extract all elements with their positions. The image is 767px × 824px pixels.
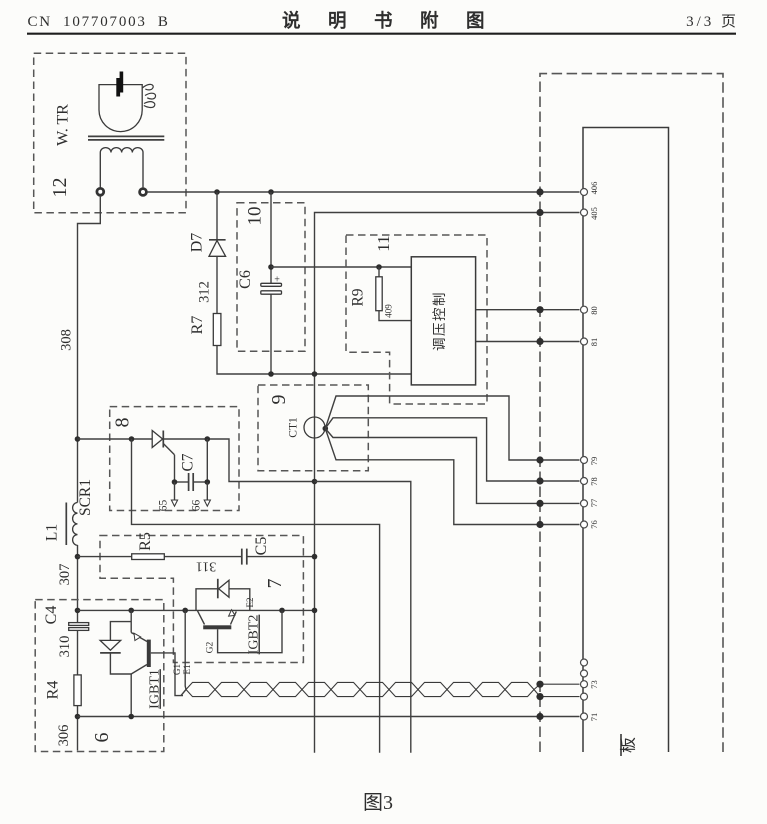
- label 66: [191, 500, 203, 512]
- svg-text:R4: R4: [45, 681, 62, 700]
- label 77: [589, 499, 599, 508]
- svg-text:W. TR: W. TR: [55, 104, 72, 146]
- wire box8 left branch down across to bottom: [132, 439, 380, 753]
- twisted pair cable: [186, 682, 580, 696]
- svg-text:405: 405: [589, 207, 599, 220]
- label C4: [43, 606, 60, 625]
- svg-text:板: 板: [620, 737, 638, 753]
- bus entry dot row 71: [536, 713, 543, 720]
- label 307: [57, 564, 73, 586]
- terminal circle 77: [581, 500, 588, 507]
- wire row y610 collector bus: [78, 609, 315, 611]
- terminal circle 76: [581, 521, 588, 528]
- svg-text:R9: R9: [350, 288, 367, 306]
- terminal circle 73a: [581, 681, 588, 688]
- svg-text:3/3 页: 3/3 页: [686, 14, 739, 30]
- svg-text:306: 306: [56, 725, 72, 747]
- capacitor C6 wire: [270, 192, 272, 374]
- svg-text:66: 66: [191, 500, 203, 512]
- bus entry dot row 76: [536, 521, 543, 528]
- svg-text:C5: C5: [253, 537, 270, 556]
- svg-text:IGBT1: IGBT1: [148, 669, 163, 709]
- svg-text:78: 78: [589, 477, 599, 486]
- junction dot node y610 on 308 line: [75, 608, 81, 614]
- svg-text:12: 12: [49, 178, 71, 198]
- label IGBT1: [148, 669, 163, 709]
- box 10: [237, 203, 305, 351]
- bus entry dot row 405: [536, 209, 543, 216]
- wire from left terminal down-left (net 308): [78, 196, 101, 503]
- diode D7: [209, 192, 226, 314]
- junction dot 307 row at CT line: [312, 554, 318, 560]
- bus entry dot row 81: [536, 338, 543, 345]
- wire row y267 C6 to control box: [271, 266, 411, 268]
- svg-text:73: 73: [589, 680, 599, 689]
- welding torch bell: [99, 85, 142, 132]
- winding lead wires: [100, 153, 143, 188]
- terminal circle 406: [581, 189, 588, 196]
- wire C4 to R4: [77, 630, 79, 675]
- terminal circle 80: [581, 306, 588, 313]
- label 71: [589, 713, 599, 722]
- resistor R7: [213, 314, 221, 346]
- svg-text:调压控制: 调压控制: [432, 291, 447, 351]
- svg-text:R7: R7: [189, 316, 206, 335]
- wire row 306 to terminal 71: [78, 716, 580, 718]
- label 12: [49, 178, 71, 198]
- CT1 fan wire w3 to terminal 77: [325, 429, 579, 504]
- box 12 welding transformer module: [34, 53, 186, 213]
- svg-text:311: 311: [196, 558, 216, 573]
- svg-text:79: 79: [589, 457, 599, 466]
- svg-text:6: 6: [91, 733, 113, 743]
- label 78: [589, 477, 599, 486]
- IGBT1 gate wire: [151, 653, 183, 696]
- wire R4 to node 306 and bottom: [77, 706, 79, 751]
- wire R7 bottom to control box (net row y374): [217, 346, 411, 375]
- box 7 stepped dashed boundary: [100, 536, 303, 663]
- bus entry dot row 78: [536, 477, 543, 484]
- svg-text:65: 65: [158, 500, 170, 512]
- label G2: [206, 641, 216, 653]
- junction dot node 306: [75, 714, 81, 720]
- resistor R5: [132, 554, 165, 560]
- resistor R9: [376, 267, 412, 321]
- svg-text:406: 406: [589, 182, 599, 195]
- header rule: [27, 33, 736, 35]
- label 65: [158, 500, 170, 512]
- label L1: [44, 524, 61, 541]
- capacitor C7 row wire: [175, 481, 208, 483]
- svg-text:L1: L1: [44, 524, 61, 541]
- CT1 fan wire w4 to terminal 76: [325, 429, 579, 525]
- capacitor C4 plates: [69, 623, 89, 631]
- label 405: [589, 207, 599, 220]
- label 10: [245, 207, 266, 226]
- junction dot y481 on CT line: [312, 479, 318, 485]
- svg-text:G1: G1: [172, 664, 182, 675]
- terminal 65 arrow: [171, 482, 177, 506]
- svg-text:9: 9: [268, 395, 290, 405]
- label SCR1: [77, 479, 94, 516]
- label W. TR: [55, 104, 72, 146]
- box 9 current transformer module: [258, 385, 368, 471]
- svg-text:SCR1: SCR1: [77, 479, 94, 516]
- terminal circle 81: [581, 338, 588, 345]
- control board dashed boundary: [540, 74, 723, 752]
- wire control box to terminal 81: [476, 341, 580, 343]
- svg-text:R5: R5: [137, 532, 154, 551]
- label R9: [350, 288, 367, 306]
- torch cable squiggles: [142, 84, 155, 107]
- caption 图3: [363, 792, 393, 814]
- svg-text:77: 77: [589, 499, 599, 508]
- label 409: [384, 304, 394, 318]
- label 板: [620, 734, 638, 756]
- voltage regulation control box U11: [411, 257, 475, 385]
- CT1 fan junction dot: [323, 426, 329, 432]
- header publication number: [28, 14, 170, 30]
- label 306: [56, 725, 72, 747]
- wire 307 row through R5 C5: [78, 556, 315, 558]
- junction dot C7 top tap: [205, 436, 211, 442]
- svg-text:IGBT2: IGBT2: [247, 615, 262, 655]
- svg-text:308: 308: [59, 329, 75, 351]
- svg-text:E1: E1: [182, 665, 192, 675]
- bus entry dot row 73a: [536, 681, 543, 688]
- wire control box to terminal 80: [476, 309, 580, 311]
- label 406: [589, 182, 599, 195]
- label 81: [589, 338, 599, 347]
- torch electrode bars: [116, 72, 123, 97]
- svg-text:307: 307: [57, 564, 73, 586]
- inductor L1 winding: [73, 503, 78, 546]
- CT1 fan wire w1 to terminal 79: [325, 396, 579, 460]
- svg-text:+: +: [274, 275, 280, 286]
- label 80: [589, 306, 599, 315]
- wire L1 to node 307 and down: [77, 545, 79, 623]
- junction dot C6 to R9 row: [268, 264, 274, 270]
- box 6 driver module: [35, 600, 164, 752]
- svg-text:11: 11: [374, 235, 393, 251]
- label C5: [253, 537, 270, 556]
- terminal circle 73b: [581, 693, 588, 700]
- wire into box 8: [78, 438, 153, 440]
- junction dot D7 tap: [214, 189, 220, 195]
- resistor R4: [74, 675, 81, 706]
- capacitor C7 plates: [189, 473, 194, 491]
- current transformer CT1 circle: [304, 417, 325, 438]
- wire thyristor cathode to corner: [163, 439, 313, 482]
- junction dot IGBT1 collector at 306 row: [128, 714, 134, 720]
- wire gate down to C7 row: [174, 455, 176, 482]
- svg-text:7: 7: [264, 579, 286, 589]
- svg-text:409: 409: [384, 304, 394, 318]
- label 308: [59, 329, 75, 351]
- label E2: [245, 598, 255, 608]
- terminal circle spare b: [581, 670, 588, 677]
- label 调压控制: [432, 291, 447, 351]
- svg-text:76: 76: [589, 520, 599, 529]
- terminal circle 79: [581, 457, 588, 464]
- label 9: [268, 395, 290, 405]
- C6 polarity plus: [274, 275, 280, 286]
- transistor IGBT2: [198, 610, 237, 630]
- C7 vertical link to cathode wire: [206, 439, 208, 482]
- control board inner solid boundary: [583, 128, 669, 753]
- junction dots row y610: [128, 608, 317, 614]
- label R7: [189, 316, 206, 335]
- label 76: [589, 520, 599, 529]
- IGBT2 gate loop wire: [218, 610, 282, 652]
- label 8: [112, 418, 134, 428]
- junction dot left branch in box 8: [129, 436, 135, 442]
- label 79: [589, 457, 599, 466]
- bus entry dot row 80: [536, 306, 543, 313]
- junction dot C6 tap: [268, 189, 274, 195]
- svg-text:E2: E2: [245, 598, 255, 608]
- wire row 405 and long vertical through CT1: [315, 213, 580, 753]
- junction dot R9 top: [376, 264, 382, 270]
- label 11: [374, 235, 393, 251]
- junction dot node on net 308 at y439: [75, 436, 81, 442]
- junction dots C7 row: [172, 479, 210, 485]
- box 11 stepped dashed boundary: [346, 235, 487, 404]
- terminal circle right: [140, 189, 147, 196]
- svg-text:10: 10: [245, 207, 266, 226]
- terminal circle spare a: [581, 659, 588, 666]
- transistor IGBT1: [131, 610, 151, 716]
- label CT1: [288, 417, 300, 438]
- label E1: [182, 665, 192, 675]
- capacitor C6 plates: [261, 283, 282, 294]
- label C6: [237, 270, 254, 289]
- svg-text:310: 310: [57, 636, 73, 658]
- wire top row to terminal 406: [147, 191, 579, 193]
- label G1: [172, 664, 182, 675]
- box 8 snubber module: [110, 407, 239, 511]
- svg-text:图3: 图3: [363, 792, 393, 814]
- IGBT1 emitter wire to twisted pair: [181, 610, 186, 695]
- label 7: [264, 579, 286, 589]
- inductor L1 core bar: [65, 503, 67, 546]
- wire y481 to right corner down to bottom: [315, 482, 411, 753]
- bus entry dot row 406: [536, 188, 543, 195]
- junction dot node 307: [75, 554, 81, 560]
- header title: [282, 10, 512, 32]
- svg-text:G2: G2: [206, 641, 216, 653]
- svg-text:312: 312: [197, 281, 213, 303]
- IGBT1 freewheel diode: [100, 622, 131, 674]
- label R5: [137, 532, 154, 551]
- svg-text:80: 80: [589, 306, 599, 315]
- svg-text:C6: C6: [237, 270, 254, 289]
- svg-text:D7: D7: [189, 233, 206, 253]
- svg-text:说明书附图: 说明书附图: [282, 10, 512, 32]
- IGBT2 freewheel diode: [196, 579, 250, 611]
- junction dots on row y374: [268, 371, 317, 377]
- label 73: [589, 680, 599, 689]
- svg-text:C4: C4: [43, 606, 60, 625]
- label 312: [197, 281, 213, 303]
- bus entry dot row 73b: [536, 693, 543, 700]
- svg-text:81: 81: [589, 338, 599, 347]
- transformer winding: [100, 148, 143, 153]
- header page number: [686, 14, 739, 30]
- CT1 fan wire w2 to terminal 78: [325, 418, 579, 481]
- capacitor C5 plates: [242, 549, 247, 565]
- label IGBT2: [247, 615, 262, 655]
- label D7: [189, 233, 206, 253]
- label 310: [57, 636, 73, 658]
- terminal circle 71: [581, 713, 588, 720]
- label 311 (rotated 180): [196, 558, 216, 573]
- bus entry dot row 79: [536, 456, 543, 463]
- terminal 66 arrow: [204, 482, 210, 506]
- label C7: [180, 453, 197, 471]
- bus entry dot row 77: [536, 500, 543, 507]
- terminal circle left: [97, 188, 104, 195]
- svg-text:C7: C7: [180, 453, 197, 471]
- svg-text:CN 107707003 B: CN 107707003 B: [28, 14, 170, 30]
- terminal circle 78: [581, 478, 588, 485]
- thyristor in box 8: [152, 431, 174, 455]
- svg-text:71: 71: [589, 713, 599, 722]
- svg-text:CT1: CT1: [288, 417, 300, 438]
- svg-text:8: 8: [112, 418, 134, 428]
- label 6: [91, 733, 113, 743]
- transformer core lines: [88, 136, 164, 140]
- terminal circle 405: [581, 209, 588, 216]
- label R4: [45, 681, 62, 700]
